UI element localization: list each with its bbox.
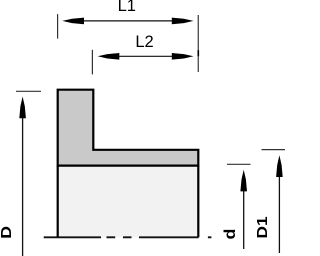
part flange cross-section (dark gray L-shape) xyxy=(58,90,199,166)
L1 dimension line xyxy=(80,20,176,22)
D dimension line xyxy=(22,114,24,256)
svg-text:L2: L2 xyxy=(135,33,153,51)
L1 right arrowhead xyxy=(172,18,194,25)
D1 dimension line xyxy=(278,172,280,253)
L1 left arrowhead xyxy=(62,18,84,25)
L2 left arrowhead xyxy=(98,53,120,60)
L2 dimension line xyxy=(115,55,176,57)
D1 arrowhead xyxy=(276,155,283,177)
d dimension line xyxy=(243,187,245,249)
d extension tick xyxy=(227,163,251,165)
D arrowhead xyxy=(19,97,26,119)
D1 extension tick xyxy=(262,149,286,151)
D1 dimension label (rotated) xyxy=(254,216,271,238)
L2 extension line, left xyxy=(91,50,93,75)
d dimension label (rotated) xyxy=(221,229,239,240)
svg-text:L1: L1 xyxy=(118,0,136,15)
L1/L2 extension line, right xyxy=(197,15,199,72)
svg-text:D1: D1 xyxy=(254,216,271,238)
svg-text:D: D xyxy=(0,226,15,239)
part body (bore region, light gray) xyxy=(57,165,200,237)
D dimension label (rotated) xyxy=(0,226,15,239)
d arrowhead xyxy=(240,170,247,192)
D extension tick xyxy=(16,90,41,92)
part left edge xyxy=(57,166,59,238)
centerline (axis), dash-dot xyxy=(44,236,212,238)
svg-text:d: d xyxy=(221,229,239,240)
part right edge xyxy=(197,166,199,238)
L2 tick on right extension line xyxy=(198,50,200,56)
L2 right arrowhead xyxy=(172,53,194,60)
L1 extension line, left xyxy=(57,14,59,38)
